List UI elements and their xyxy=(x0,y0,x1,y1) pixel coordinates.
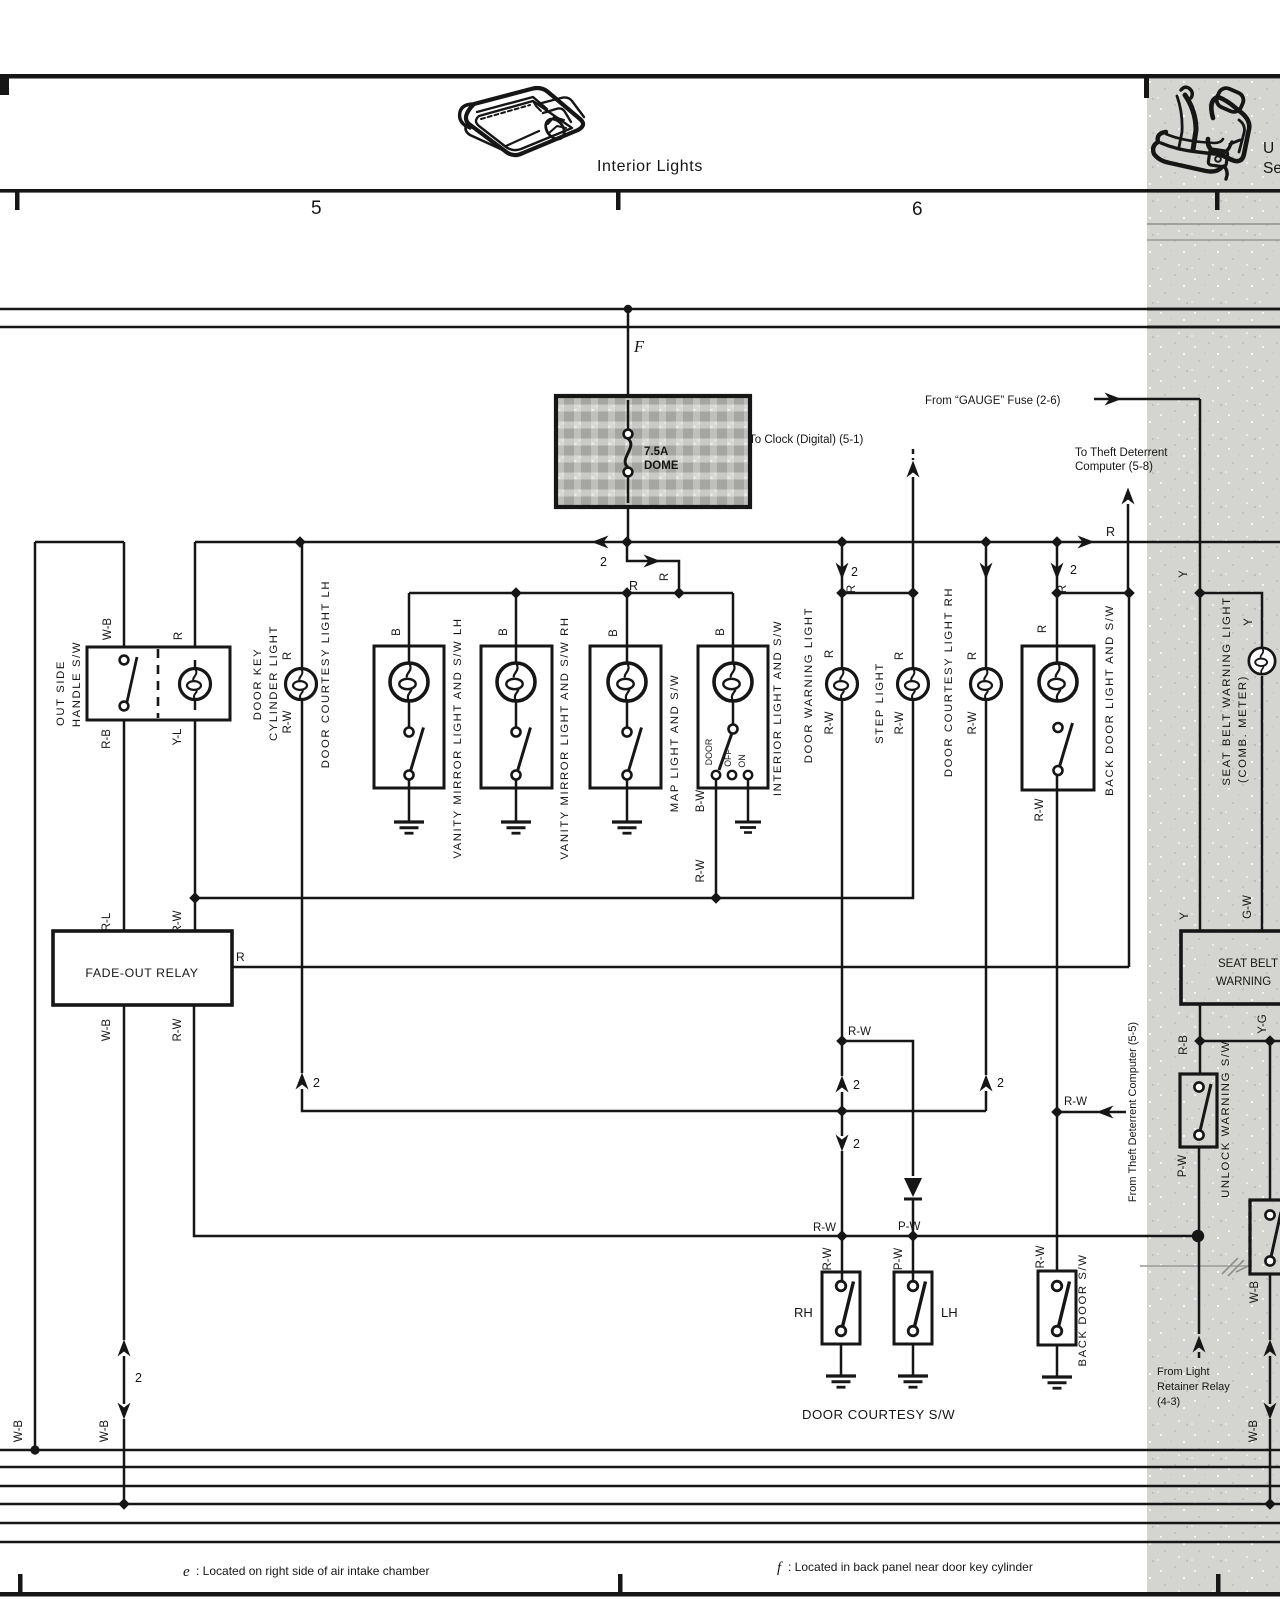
svg-text:Interior Lights: Interior Lights xyxy=(597,158,703,175)
svg-text:W-B: W-B xyxy=(102,618,114,640)
wire door courtesy RH down xyxy=(985,699,988,1075)
svg-text:2: 2 xyxy=(600,555,607,569)
svg-text:B: B xyxy=(608,629,620,637)
svg-text:R-W: R-W xyxy=(282,710,294,733)
svg-text:HANDLE S/W: HANDLE S/W xyxy=(71,641,83,727)
svg-text:2: 2 xyxy=(853,1078,860,1092)
interior light DOOR contact wire B-W xyxy=(715,779,718,898)
wire R-B down to relay xyxy=(123,720,126,931)
svg-text:Y: Y xyxy=(1179,912,1191,920)
svg-text:: Located in back panel near d: : Located in back panel near door key cy… xyxy=(788,1560,1033,1574)
svg-text:R-W: R-W xyxy=(1035,1245,1047,1268)
svg-text:R: R xyxy=(659,573,671,581)
bottom border xyxy=(0,1592,1280,1597)
door courtesy s/w RH xyxy=(841,1151,844,1281)
page bus line upper 1 xyxy=(0,308,1280,311)
wire R to outside handle lamp xyxy=(194,542,197,647)
svg-text:R-W: R-W xyxy=(695,859,707,882)
svg-text:Y-L: Y-L xyxy=(172,728,184,745)
seat belt warning light branch xyxy=(1200,593,1262,649)
svg-text:WARNING: WARNING xyxy=(1216,976,1271,988)
svg-text:: Located on right side of air: : Located on right side of air intake ch… xyxy=(196,1564,429,1578)
wire fuse to bus xyxy=(627,507,630,542)
svg-text:2: 2 xyxy=(135,1371,142,1385)
svg-text:MAP LIGHT AND S/W: MAP LIGHT AND S/W xyxy=(669,674,681,813)
svg-text:7.5A: 7.5A xyxy=(644,446,668,458)
door lock s/w at page edge xyxy=(1250,1200,1280,1274)
link to step light xyxy=(836,587,848,599)
wire from gauge fuse with arrow xyxy=(1094,398,1200,401)
svg-text:R-W: R-W xyxy=(824,711,836,734)
svg-text:Y: Y xyxy=(1243,618,1255,626)
svg-text:DOOR COURTESY S/W: DOOR COURTESY S/W xyxy=(802,1407,955,1422)
faint broken line with skip marks xyxy=(1140,1265,1280,1267)
svg-text:6: 6 xyxy=(912,199,923,220)
svg-text:R: R xyxy=(173,632,185,640)
outputs of seat belt warning box xyxy=(1199,1004,1202,1074)
svg-text:(COMB. METER): (COMB. METER) xyxy=(1237,675,1249,783)
ruler line xyxy=(0,189,1280,193)
svg-text:U: U xyxy=(1263,140,1274,157)
svg-text:UNLOCK WARNING S/W: UNLOCK WARNING S/W xyxy=(1220,1040,1232,1198)
svg-text:LH: LH xyxy=(941,1305,958,1320)
connector arrow R right on bus xyxy=(1078,536,1095,549)
back door light and s/w xyxy=(1051,563,1064,580)
svg-text:R: R xyxy=(894,652,906,660)
out side handle lamp xyxy=(194,660,197,710)
vanity mirror light and s/w LH xyxy=(408,593,411,730)
wire door courtesy LH down xyxy=(301,698,304,1073)
fuse 7.5A DOME xyxy=(556,396,750,507)
svg-text:Computer (5-8): Computer (5-8) xyxy=(1075,461,1153,473)
interior light and s/w xyxy=(732,593,735,727)
W-B bracket top link xyxy=(35,541,124,544)
wire R to door courtesy light LH xyxy=(301,542,304,670)
relay output R to theft net xyxy=(232,966,1129,969)
R-W jumper from door warning wire to diode branch xyxy=(836,1035,848,1047)
theft deterrent feed to back door s/w xyxy=(1051,1106,1063,1118)
svg-text:ON: ON xyxy=(737,754,747,767)
left page wire W-B xyxy=(34,542,37,1450)
dome light icon xyxy=(460,88,584,155)
svg-text:R: R xyxy=(282,652,294,660)
svg-text:DOOR COURTESY LIGHT RH: DOOR COURTESY LIGHT RH xyxy=(943,587,955,777)
main bus wire R from dome fuse xyxy=(195,541,1280,544)
node F feed wire from bus xyxy=(624,305,632,313)
svg-text:Retainer Relay: Retainer Relay xyxy=(1157,1381,1230,1393)
wire to clock with up arrow xyxy=(912,449,915,460)
svg-text:Se: Se xyxy=(1263,160,1280,177)
svg-text:R: R xyxy=(967,652,979,660)
relay W-B output down xyxy=(123,1005,126,1340)
door warning light xyxy=(836,563,849,580)
bottom page bus lines xyxy=(0,1449,1280,1452)
svg-text:R: R xyxy=(236,950,245,964)
wire W-B from door lock s/w xyxy=(1269,1274,1272,1340)
step light xyxy=(912,593,915,669)
svg-text:DOOR COURTESY LIGHT LH: DOOR COURTESY LIGHT LH xyxy=(320,580,332,768)
door courtesy light RH xyxy=(980,563,993,580)
vanity mirror light and s/w RH xyxy=(515,593,518,730)
svg-text:B: B xyxy=(391,628,403,636)
svg-text:W-B: W-B xyxy=(1248,1420,1260,1442)
svg-text:R-W: R-W xyxy=(848,1026,871,1038)
svg-text:VANITY MIRROR LIGHT AND S/W LH: VANITY MIRROR LIGHT AND S/W LH xyxy=(452,617,464,858)
svg-text:W-B: W-B xyxy=(99,1420,111,1442)
svg-text:OUT SIDE: OUT SIDE xyxy=(55,660,67,726)
svg-text:Y-G: Y-G xyxy=(1257,1014,1269,1033)
svg-text:2: 2 xyxy=(851,565,858,579)
diode xyxy=(904,1178,922,1197)
svg-text:2: 2 xyxy=(997,1076,1004,1090)
svg-text:DOOR KEY: DOOR KEY xyxy=(252,648,264,720)
svg-text:B: B xyxy=(715,628,727,636)
svg-text:B-W: B-W xyxy=(695,790,707,813)
svg-text:(4-3): (4-3) xyxy=(1157,1396,1180,1408)
svg-text:From “GAUGE” Fuse (2-6): From “GAUGE” Fuse (2-6) xyxy=(925,395,1061,407)
svg-text:P-W: P-W xyxy=(893,1248,905,1271)
out side handle s/w box xyxy=(87,647,230,720)
svg-text:R-W: R-W xyxy=(1064,1096,1087,1108)
door courtesy s/w LH xyxy=(912,1236,915,1281)
svg-text:R-W: R-W xyxy=(894,711,906,734)
svg-text:R: R xyxy=(1037,625,1049,633)
svg-text:FADE-OUT RELAY: FADE-OUT RELAY xyxy=(85,966,198,980)
wire gauge feed down the grey column xyxy=(1199,399,1202,931)
svg-text:From Theft Deterrent Computer: From Theft Deterrent Computer (5-5) xyxy=(1127,1022,1139,1202)
svg-text:5: 5 xyxy=(311,198,322,219)
svg-text:STEP LIGHT: STEP LIGHT xyxy=(874,662,886,744)
fade-out relay xyxy=(53,931,232,1005)
svg-text:B: B xyxy=(498,628,510,636)
svg-text:DOOR: DOOR xyxy=(704,739,714,765)
svg-text:2: 2 xyxy=(313,1076,320,1090)
svg-text:SEAT BELT WARNING LIGHT: SEAT BELT WARNING LIGHT xyxy=(1221,596,1233,785)
door key cylinder light lamp xyxy=(286,669,317,700)
svg-text:BACK DOOR LIGHT AND S/W: BACK DOOR LIGHT AND S/W xyxy=(1104,604,1116,796)
svg-text:W-B: W-B xyxy=(101,1019,113,1041)
wire to theft deterrent computer with up arrow xyxy=(1122,488,1135,505)
interior light ON contact to ground xyxy=(747,779,750,822)
unlock warning s/w xyxy=(1180,1074,1217,1147)
svg-text:From Light: From Light xyxy=(1157,1366,1210,1378)
bus2 feed line for lamp boxes xyxy=(409,592,733,595)
svg-text:R-B: R-B xyxy=(101,729,113,749)
relay R-W output to door courtesy net xyxy=(194,1005,1198,1236)
svg-text:To Theft Deterrent: To Theft Deterrent xyxy=(1075,447,1168,459)
svg-text:R-W: R-W xyxy=(172,1018,184,1041)
svg-text:VANITY MIRROR LIGHT AND S/W RH: VANITY MIRROR LIGHT AND S/W RH xyxy=(559,616,571,859)
connector arrow 2 left on bus xyxy=(592,536,609,549)
wire Y-L / R-W down to relay xyxy=(194,720,197,931)
map light and s/w xyxy=(626,593,629,730)
seat belt page icon (next section) xyxy=(1153,86,1249,179)
bus2 R step link xyxy=(627,542,679,593)
svg-text:W-B: W-B xyxy=(13,1420,25,1442)
svg-text:DOOR WARNING LIGHT: DOOR WARNING LIGHT xyxy=(803,607,815,763)
svg-text:2: 2 xyxy=(1070,563,1077,577)
svg-text:To Clock (Digital) (5-1): To Clock (Digital) (5-1) xyxy=(749,434,864,446)
svg-text:e: e xyxy=(183,1564,190,1580)
theft net riser xyxy=(1128,593,1131,967)
svg-text:2: 2 xyxy=(853,1137,860,1151)
seat belt warning box xyxy=(1181,931,1280,1004)
svg-text:P-W: P-W xyxy=(898,1221,921,1233)
wire W-B to outside handle switch xyxy=(123,542,126,647)
faint continuation lines in grey column xyxy=(1147,223,1280,225)
svg-text:R-B: R-B xyxy=(1178,1035,1190,1055)
wire door warning light down xyxy=(841,699,844,1076)
svg-text:CYLINDER LIGHT: CYLINDER LIGHT xyxy=(268,625,280,741)
junction on courtesy line xyxy=(836,1105,848,1117)
svg-text:R: R xyxy=(824,650,836,658)
svg-text:R: R xyxy=(1106,525,1115,539)
svg-text:R-W: R-W xyxy=(813,1222,836,1234)
svg-text:BACK DOOR S/W: BACK DOOR S/W xyxy=(1077,1253,1089,1366)
svg-text:OFF: OFF xyxy=(723,749,733,767)
svg-text:F: F xyxy=(633,337,645,356)
svg-text:Y: Y xyxy=(1178,570,1190,578)
svg-text:R-L: R-L xyxy=(101,912,113,931)
svg-text:f: f xyxy=(777,1560,783,1576)
svg-text:DOME: DOME xyxy=(644,460,679,472)
wire back door light down xyxy=(1056,774,1059,1272)
top border xyxy=(0,74,1280,79)
svg-text:INTERIOR LIGHT AND S/W: INTERIOR LIGHT AND S/W xyxy=(772,620,784,796)
svg-text:R-W: R-W xyxy=(1034,798,1046,821)
svg-text:R-W: R-W xyxy=(822,1247,834,1270)
junction dots on bus xyxy=(294,536,306,548)
svg-text:RH: RH xyxy=(794,1305,813,1320)
svg-text:R-W: R-W xyxy=(967,711,979,734)
page bus line upper 2 xyxy=(0,326,1280,329)
svg-text:W-B: W-B xyxy=(1249,1281,1261,1303)
step light wire to fade-out relay sense line xyxy=(195,699,913,898)
svg-text:SEAT BELT: SEAT BELT xyxy=(1218,958,1278,970)
grey side column xyxy=(1147,79,1280,1592)
svg-text:G-W: G-W xyxy=(1242,895,1254,919)
svg-text:P-W: P-W xyxy=(1177,1155,1189,1178)
